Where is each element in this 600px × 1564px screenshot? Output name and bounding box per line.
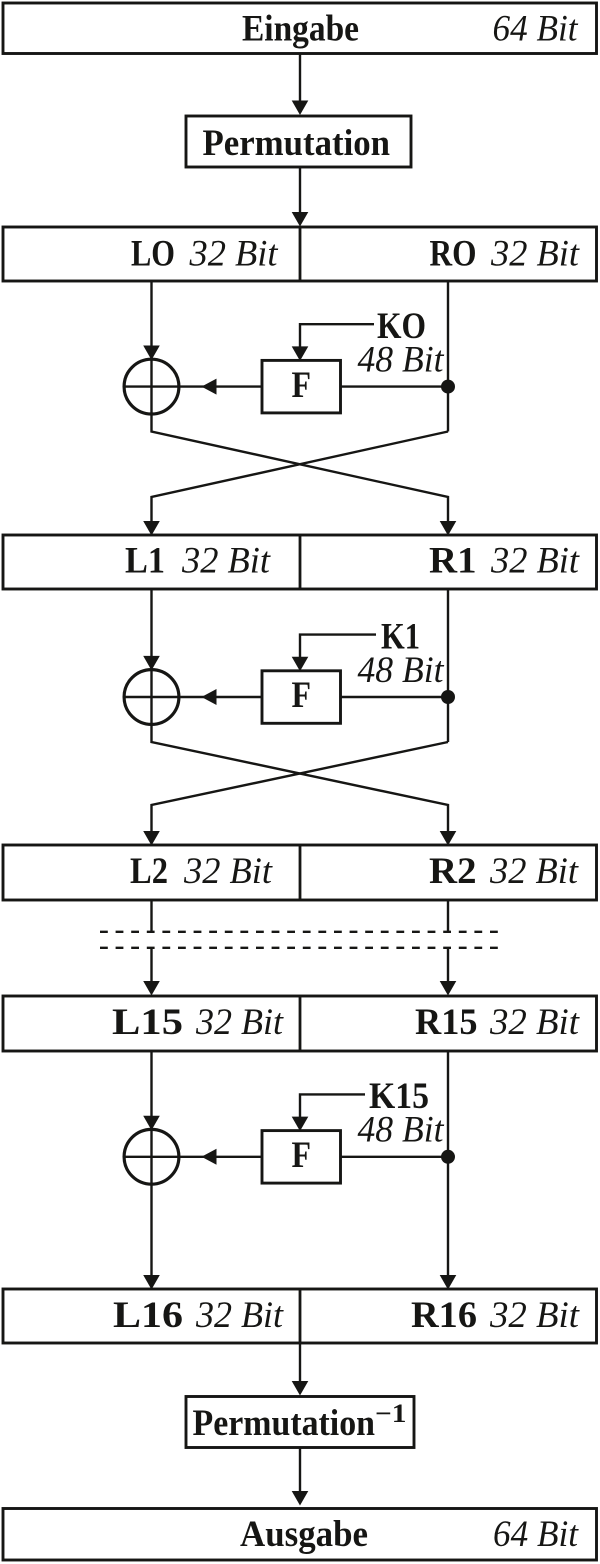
box Ausgabe (64-bit output register) xyxy=(3,1509,597,1561)
arrowhead into next L xyxy=(143,521,160,536)
junction dot on R wire xyxy=(441,690,455,704)
svg-text:F: F xyxy=(292,1134,312,1175)
arrowhead into next L xyxy=(143,831,160,846)
svg-text:LO: LO xyxy=(131,233,175,274)
XOR cross horizontal / wire from F to XOR xyxy=(124,1156,262,1158)
svg-text:32 Bit: 32 Bit xyxy=(181,540,271,581)
svg-text:R15: R15 xyxy=(415,1001,478,1042)
svg-text:48 Bit: 48 Bit xyxy=(358,649,445,690)
svg-text:64 Bit: 64 Bit xyxy=(493,8,579,49)
svg-text:RO: RO xyxy=(430,233,477,274)
function box F (KO round) xyxy=(262,360,341,413)
divider L16|R16 xyxy=(299,1289,302,1343)
box Permutation (initial permutation) xyxy=(186,116,411,167)
box Permutation^-1 (final permutation) xyxy=(186,1397,414,1448)
wire: R junction into F xyxy=(341,385,449,387)
XOR cross horizontal / wire from F to XOR xyxy=(124,696,262,698)
key wire K1 into F xyxy=(300,635,376,658)
svg-text:32 Bit: 32 Bit xyxy=(183,850,273,891)
arrowhead K1 into F xyxy=(292,657,309,672)
arrowhead into Permutation xyxy=(292,101,309,116)
wire: Permutation to L0/R0 xyxy=(299,167,301,214)
XOR adder (circle plus) for KO round xyxy=(124,359,179,414)
wire: R down to crossover xyxy=(447,281,449,432)
XOR cross vertical + crossover L-to-R xyxy=(152,359,449,522)
svg-text:R2: R2 xyxy=(429,850,477,891)
wire: inverse permutation to Ausgabe xyxy=(299,1448,301,1494)
function box F (K1 round) xyxy=(262,671,341,724)
arrowhead K15 into F xyxy=(292,1117,309,1132)
wire: R junction into F xyxy=(341,696,449,698)
dashed ellipsis line 2 xyxy=(100,947,499,949)
svg-text:64 Bit: 64 Bit xyxy=(493,1513,579,1554)
svg-text:L16: L16 xyxy=(113,1294,183,1335)
svg-text:L1: L1 xyxy=(125,540,165,581)
crossover R-to-L xyxy=(152,742,449,832)
svg-text:48 Bit: 48 Bit xyxy=(358,1109,445,1150)
arrowhead into XOR xyxy=(143,656,160,671)
arrowhead into next R xyxy=(440,521,457,536)
arrowhead into XOR xyxy=(143,1116,160,1131)
key wire KO into F xyxy=(300,324,374,347)
box L16/R16 register xyxy=(3,1289,597,1343)
wire: R below R2 xyxy=(447,900,449,932)
divider L1|R1 xyxy=(299,535,302,589)
svg-text:Eingabe: Eingabe xyxy=(242,8,359,49)
wire: L into XOR xyxy=(150,281,152,346)
XOR cross horizontal / wire from F to XOR xyxy=(124,385,262,387)
function box F (K15 round) xyxy=(262,1131,341,1184)
svg-text:32 Bit: 32 Bit xyxy=(189,233,279,274)
arrowhead KO into F xyxy=(292,346,309,361)
svg-text:R16: R16 xyxy=(411,1294,477,1335)
svg-text:32 Bit: 32 Bit xyxy=(195,1294,284,1335)
svg-text:32 Bit: 32 Bit xyxy=(489,1001,580,1042)
svg-text:F: F xyxy=(292,364,312,405)
arrowhead into L0/R0 xyxy=(292,212,309,227)
svg-text:32 Bit: 32 Bit xyxy=(489,1294,580,1335)
arrowhead into L15 xyxy=(143,981,160,996)
XOR adder (circle plus) for K15 round xyxy=(124,1129,179,1184)
box L1/R1 register xyxy=(3,535,597,589)
wire: L into XOR xyxy=(150,589,152,657)
arrowhead into R15 xyxy=(440,981,457,996)
divider L2|R2 xyxy=(299,845,302,900)
junction dot on R wire xyxy=(441,1150,455,1164)
wire: L into XOR xyxy=(150,1051,152,1116)
wire: L into L15 xyxy=(150,948,152,983)
arrowhead into R16 xyxy=(440,1275,457,1290)
svg-text:Permutation−1: Permutation−1 xyxy=(193,1399,407,1443)
arrowhead into XOR xyxy=(143,346,160,361)
wire: L16/R16 to inverse permutation xyxy=(299,1343,301,1383)
box L2/R2 register xyxy=(3,845,597,900)
wire: L below L2 xyxy=(150,900,152,932)
arrowhead into next R xyxy=(440,831,457,846)
dashed ellipsis line 1 xyxy=(100,931,499,933)
XOR adder (circle plus) for K1 round xyxy=(124,670,179,725)
svg-text:R1: R1 xyxy=(429,540,477,581)
wire: Eingabe to Permutation xyxy=(299,54,301,104)
XOR cross vertical + crossover L-to-R xyxy=(152,670,449,832)
svg-text:L2: L2 xyxy=(130,850,168,891)
crossover R-to-L xyxy=(152,432,449,523)
wire: R junction into F xyxy=(341,1156,449,1158)
divider L15|R15 xyxy=(299,996,302,1051)
arrowhead into inverse permutation xyxy=(292,1381,309,1396)
wire: R straight down to R16 xyxy=(447,1051,449,1276)
svg-text:32 Bit: 32 Bit xyxy=(195,1001,284,1042)
arrowhead F output into XOR xyxy=(202,1149,217,1165)
svg-text:32 Bit: 32 Bit xyxy=(490,233,580,274)
box Eingabe (64-bit input register) xyxy=(3,3,597,54)
svg-text:48 Bit: 48 Bit xyxy=(358,338,445,379)
divider L0|R0 xyxy=(299,227,302,281)
junction dot on R wire xyxy=(441,380,455,394)
arrowhead F output into XOR xyxy=(202,689,217,705)
XOR cross vertical + wire straight down to L16 xyxy=(150,1129,152,1276)
arrowhead F output into XOR xyxy=(202,379,217,395)
svg-text:Permutation: Permutation xyxy=(203,122,391,163)
svg-text:F: F xyxy=(292,674,312,715)
wire: R down to crossover xyxy=(447,589,449,742)
key wire K15 into F xyxy=(300,1094,365,1117)
box L0/R0 register xyxy=(3,227,597,281)
svg-text:32 Bit: 32 Bit xyxy=(490,540,580,581)
box L15/R15 register xyxy=(3,996,597,1051)
arrowhead into Ausgabe xyxy=(292,1491,309,1506)
svg-text:L15: L15 xyxy=(112,1001,183,1042)
svg-text:32 Bit: 32 Bit xyxy=(489,850,579,891)
arrowhead into L16 xyxy=(143,1275,160,1290)
wire: R into R15 xyxy=(447,948,449,983)
svg-text:Ausgabe: Ausgabe xyxy=(240,1513,368,1554)
